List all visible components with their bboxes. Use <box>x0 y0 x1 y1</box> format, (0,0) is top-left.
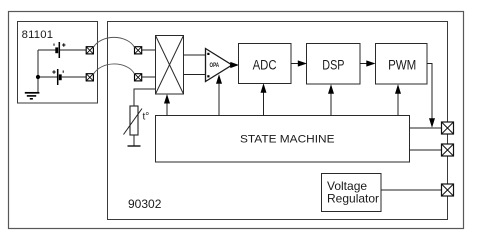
svg-text:OPA: OPA <box>210 63 220 69</box>
svg-text:ADC: ADC <box>253 58 277 73</box>
svg-text:90302: 90302 <box>128 197 162 211</box>
svg-text:PWM: PWM <box>388 58 416 73</box>
svg-text:DSP: DSP <box>322 58 344 73</box>
svg-text:Regulator: Regulator <box>327 191 379 205</box>
svg-text:STATE MACHINE: STATE MACHINE <box>240 134 335 146</box>
svg-text:t°: t° <box>143 112 150 123</box>
svg-text:81101: 81101 <box>22 29 53 41</box>
